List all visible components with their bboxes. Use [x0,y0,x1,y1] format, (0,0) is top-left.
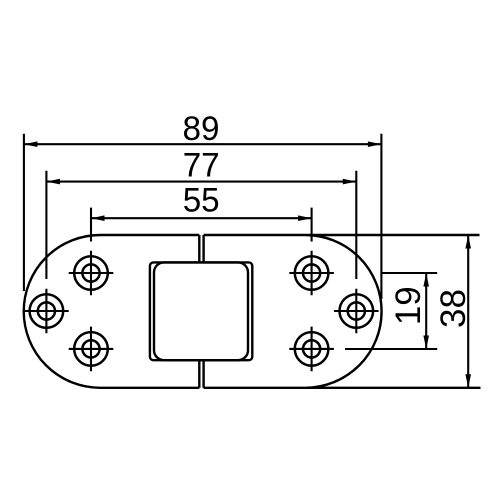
hole H4 crosshair [289,251,334,296]
arrow 38 bottom [465,374,471,388]
svg-text:19: 19 [389,286,428,325]
hole H1 top-left circles [74,256,108,290]
dimension 19 line [425,273,427,349]
center square outer lip [150,262,252,360]
center slot top lines [199,235,203,262]
hole H1 crosshair [69,251,114,296]
dimension 19 extension lines [345,273,437,349]
arrow 89 left [24,141,38,147]
arrow 55 left [91,215,105,221]
dimension 55 line [91,217,312,219]
svg-text:77: 77 [183,146,220,184]
dimension 55 extension lines [91,208,312,242]
arrow 55 right [298,215,312,221]
arrow 89 right [368,141,382,147]
dimension 89 extension lines [24,134,382,299]
arrow 19 top [423,273,429,287]
arrow 77 left [46,179,60,185]
hole H4 top-right circles [295,256,329,290]
dimension 89 line [24,143,382,145]
hole H6 bottom-right circles [295,332,329,366]
arrow 38 top [465,235,471,249]
hole H2 crosshair [24,289,69,334]
hinge body outline left half [24,235,200,388]
hinge body outline right half (top edge continues as 38-dim extension) [204,235,481,388]
hole H5 crosshair [334,289,379,334]
center slot bottom lines [199,360,203,388]
hole H6 crosshair [289,327,334,372]
hole H2 left-middle circles [30,294,64,328]
dimension 38 line [467,235,469,388]
svg-text:55: 55 [183,181,220,219]
dimension 77 extension lines [46,171,356,279]
center square inner plate [154,262,248,360]
arrow 77 right [343,179,357,185]
dimension 77 line [46,181,356,183]
svg-text:38: 38 [434,289,473,328]
hole H5 right-middle circles [340,294,374,328]
arrow 19 bottom [423,336,429,350]
hole H3 crosshair [69,327,114,372]
svg-text:89: 89 [183,110,220,148]
hole H3 bottom-left circles [74,332,108,366]
